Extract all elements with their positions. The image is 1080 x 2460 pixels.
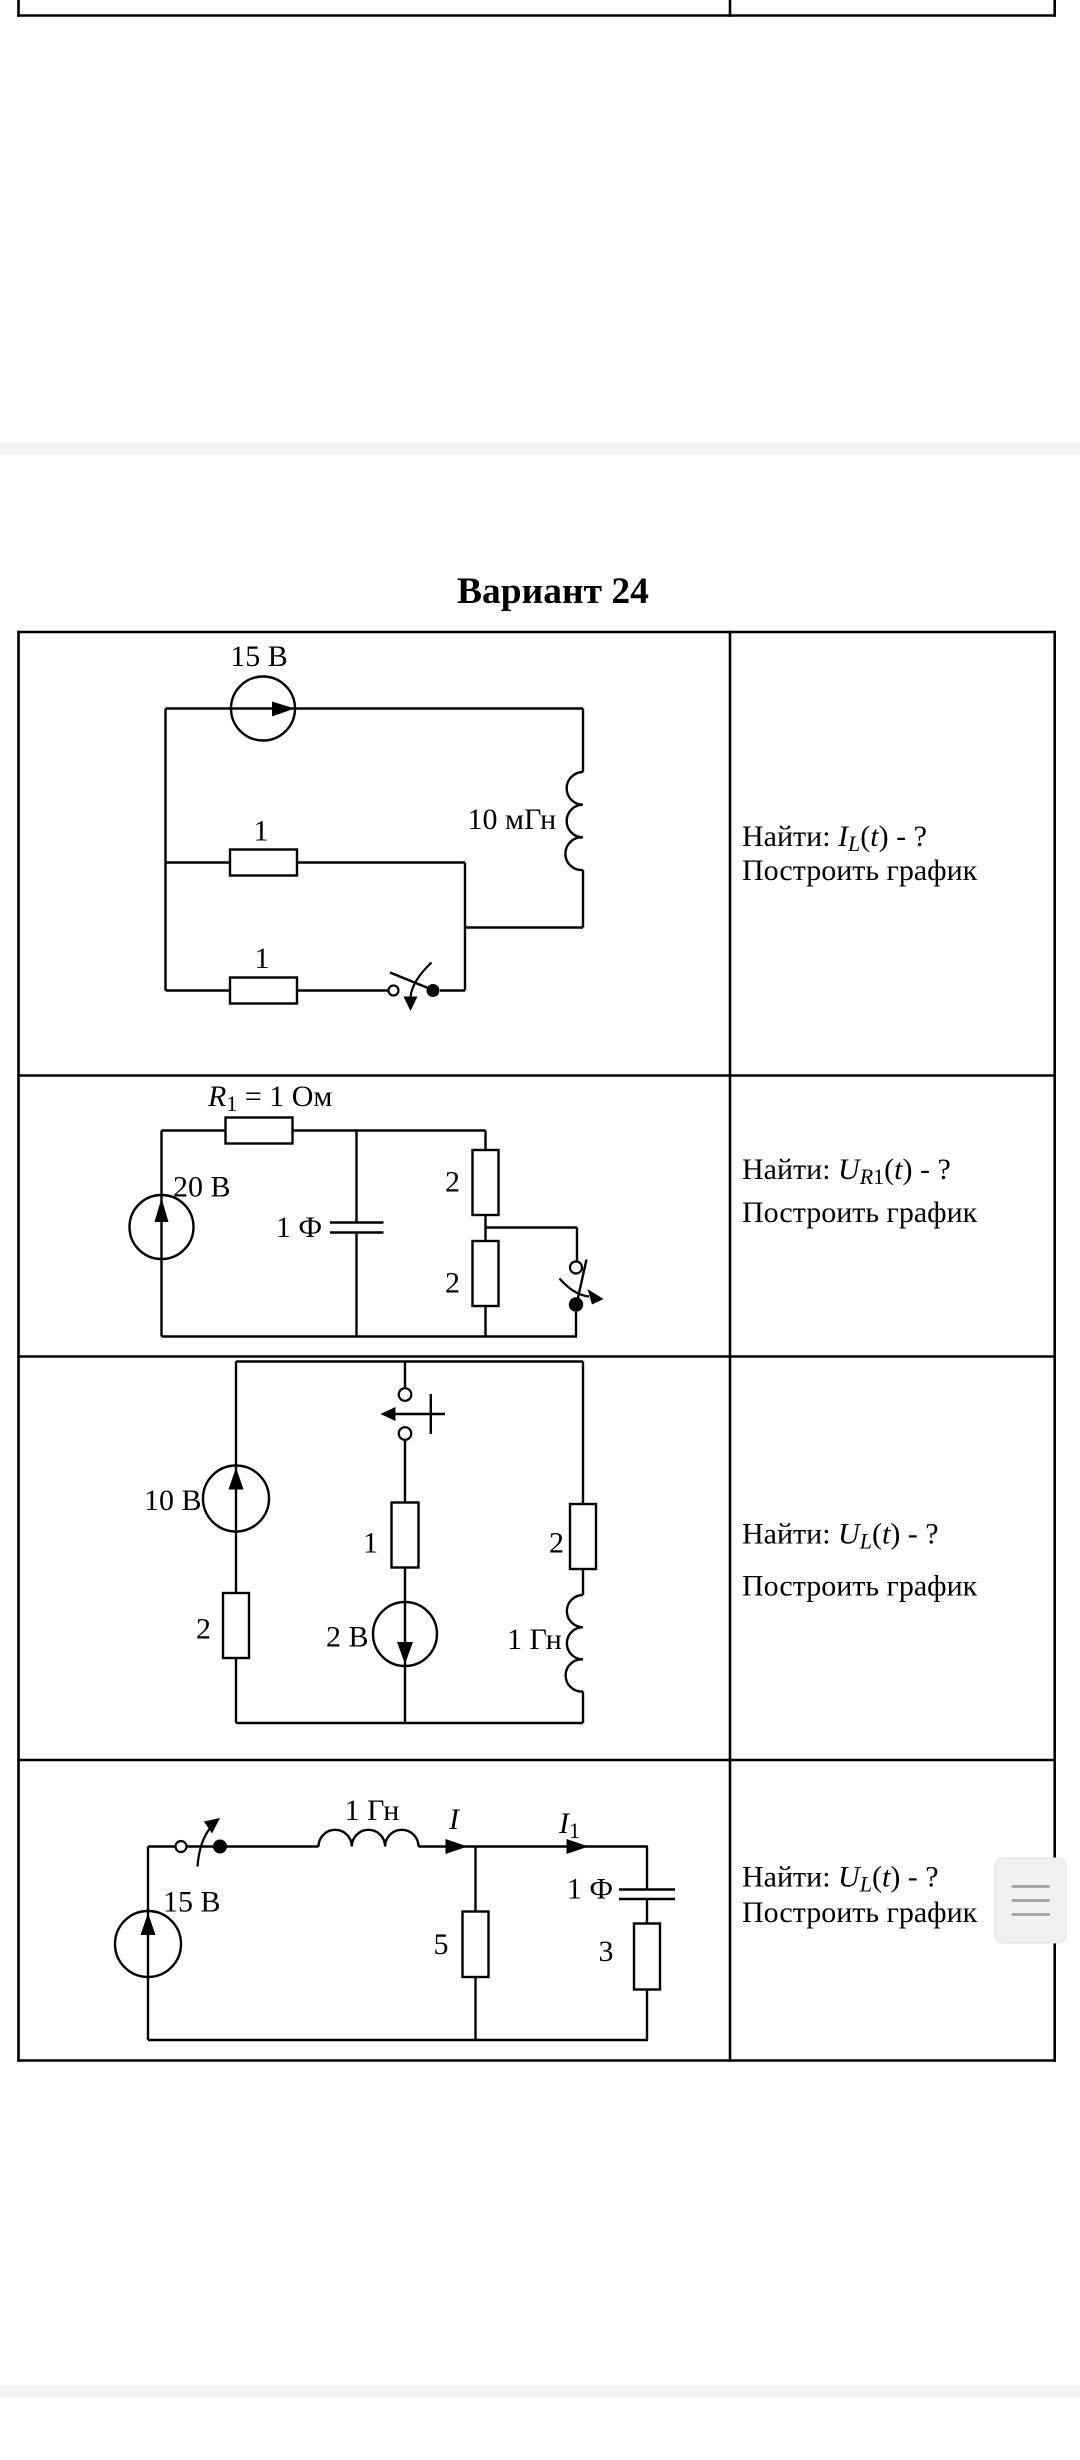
svg-text:1: 1 (363, 1527, 378, 1560)
svg-text:R1 = 1 Ом: R1 = 1 Ом (207, 1080, 332, 1116)
svg-text:1 Ф: 1 Ф (567, 1873, 613, 1906)
svg-text:1 Ф: 1 Ф (276, 1211, 322, 1244)
svg-text:2: 2 (445, 1267, 460, 1300)
svg-text:1 Гн: 1 Гн (507, 1623, 562, 1656)
svg-text:2: 2 (445, 1166, 460, 1199)
svg-text:5: 5 (434, 1928, 449, 1961)
svg-text:Вариант 24: Вариант 24 (457, 571, 649, 612)
svg-text:3: 3 (599, 1935, 614, 1968)
svg-text:1 Гн: 1 Гн (345, 1794, 400, 1827)
svg-text:2 В: 2 В (326, 1621, 369, 1654)
svg-text:2: 2 (196, 1613, 211, 1646)
svg-text:2: 2 (549, 1527, 564, 1560)
svg-text:Построить график: Построить график (742, 1896, 978, 1929)
svg-text:Найти: UR1(t) - ?: Найти: UR1(t) - ? (742, 1153, 951, 1189)
svg-text:20 В: 20 В (173, 1171, 231, 1204)
svg-text:15 В: 15 В (230, 640, 288, 673)
svg-text:Найти: UL(t) - ?: Найти: UL(t) - ? (742, 1861, 939, 1897)
svg-text:Построить график: Построить график (742, 1570, 978, 1603)
svg-text:1: 1 (255, 942, 270, 975)
svg-text:Найти: IL(t) - ?: Найти: IL(t) - ? (742, 820, 927, 856)
svg-text:Найти: UL(t) - ?: Найти: UL(t) - ? (742, 1518, 939, 1554)
svg-text:Построить график: Построить график (742, 1196, 978, 1229)
svg-text:10 мГн: 10 мГн (468, 803, 557, 836)
svg-text:Построить график: Построить график (742, 854, 978, 887)
svg-text:15 В: 15 В (163, 1886, 221, 1919)
svg-text:10 В: 10 В (144, 1484, 202, 1517)
svg-text:1: 1 (254, 815, 269, 848)
